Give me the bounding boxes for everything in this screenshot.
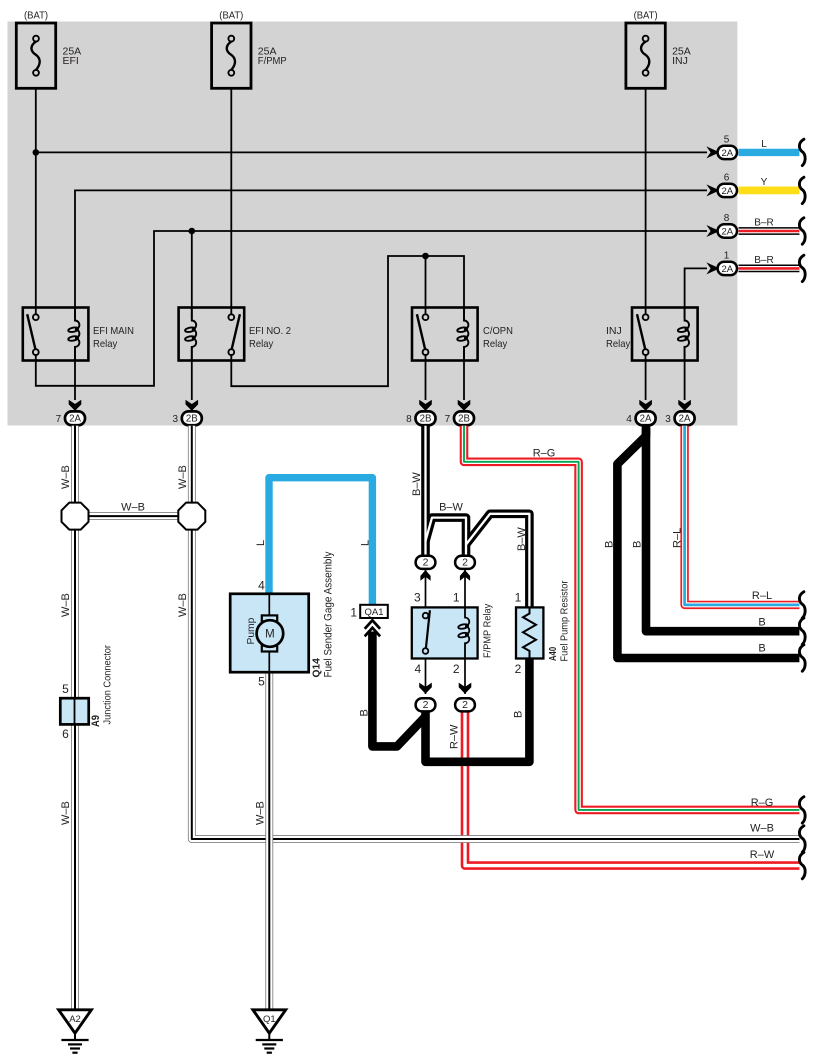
svg-text:W–B: W–B [60,593,72,617]
wire W-B: junction node down to junction connector A9 [71,530,79,699]
svg-text:B–W: B–W [439,501,463,513]
wire B: F/PMP relay pin 4 connector to fuel pump resistor pin 2 [426,658,530,762]
relay F/PMP [412,591,494,676]
wire: C/OPN switch feed [425,256,427,314]
svg-text:B–R: B–R [754,218,774,229]
wire W-B: between junction nodes [88,512,178,520]
svg-text:R–W: R–W [750,849,775,861]
wire: EFI MAIN coil feed / row to connector 6 2A [75,190,707,318]
svg-text:2A: 2A [69,414,81,425]
fuse EFI 25A [16,10,81,89]
relay box background panel [8,22,738,426]
relay EFI NO. 2 [179,308,292,361]
svg-text:L: L [359,540,371,546]
relay EFI MAIN [23,308,134,361]
svg-text:INJ: INJ [672,55,688,67]
wire: EFI fuse to EFI MAIN relay switch [35,88,37,314]
svg-text:F/PMP: F/PMP [258,55,287,67]
svg-text:QA1: QA1 [365,607,384,618]
svg-text:1: 1 [724,251,730,262]
junction connector A9 [60,645,113,741]
svg-text:3: 3 [414,591,421,605]
svg-text:B: B [631,541,643,548]
svg-text:EFI MAIN: EFI MAIN [93,325,134,337]
svg-text:Relay: Relay [606,338,631,350]
svg-text:Relay: Relay [93,338,118,350]
ground A2 [59,1010,92,1053]
svg-text:1: 1 [515,591,522,605]
wire: row to connector 8 2A from EFI MAIN switch output [36,231,707,386]
svg-text:2A: 2A [640,414,652,425]
svg-text:INJ: INJ [606,325,622,337]
svg-text:Pump: Pump [246,617,257,644]
wire break at right edge y=604.9 [799,592,805,618]
wire B: connector 4 2A branch down-left and right to edge break [617,428,799,658]
connector 2 below pin 2 [455,683,475,712]
svg-text:1: 1 [453,591,460,605]
svg-text:2B: 2B [458,414,470,425]
wire: INJ coil to connector 3 2A [684,346,686,400]
node junction at EFI fuse wire [33,149,40,156]
fuse F/PMP 25A [212,10,287,89]
wire: INJ switch to connector 4 2A [645,355,647,400]
svg-text:EFI NO. 2: EFI NO. 2 [249,325,291,337]
svg-text:5: 5 [724,135,730,146]
svg-text:B–R: B–R [754,255,774,266]
wire break at right edge y=658.0 [799,645,805,671]
svg-text:2A: 2A [721,226,733,237]
wire: F/PMP fuse to EFI NO.2 switch [230,88,232,314]
wire W-B: fuel pump pin 5 to ground Q1 [265,673,273,1010]
svg-text:W–B: W–B [60,801,72,825]
wire: C/OPN switch to connector 8 2B [425,355,427,400]
connector pin 6 2A row [706,173,767,198]
svg-text:Fuel Pump Resistor: Fuel Pump Resistor [559,580,570,662]
wire W-B: junction node down and right to edge break [192,530,800,839]
svg-text:(BAT): (BAT) [24,10,48,22]
svg-text:B: B [358,709,370,716]
svg-text:B: B [758,642,765,654]
svg-text:4: 4 [626,414,632,425]
svg-text:R–L: R–L [752,590,772,602]
svg-text:8: 8 [724,213,730,224]
connector pin 3 2B [172,400,201,425]
wire R-G from connector 7 2B [464,426,799,810]
svg-text:B: B [758,616,765,628]
wire R-L from connector 3 2A [685,426,800,605]
svg-text:6: 6 [62,727,69,741]
wire R-W from F/PMP relay pin 2 [465,712,799,866]
svg-text:2B: 2B [186,414,198,425]
ground Q1 [253,1010,286,1053]
wire L (blue): fuel sender gage to QA1 [269,478,372,605]
svg-text:2: 2 [462,699,468,711]
svg-text:2A: 2A [721,186,733,197]
svg-text:4: 4 [258,579,265,593]
svg-text:R–W: R–W [448,724,460,749]
relay INJ [606,308,698,361]
svg-text:B: B [604,541,616,548]
wire: EFI NO.2 switch output to C/OPN relay feed [231,256,464,386]
wire break at right edge y=865.6 [799,852,805,878]
node junction octagon right [178,503,205,530]
connector 2 above pin 3 [416,556,436,581]
svg-text:L: L [255,540,267,546]
resistor A40 Fuel Pump Resistor [515,580,571,676]
svg-text:(BAT): (BAT) [634,10,658,22]
wire: EFI NO.2 coil to connector 3 2B [191,346,193,400]
svg-text:Relay: Relay [249,338,274,350]
svg-text:3: 3 [665,414,671,425]
connector pin 5 2A row [706,135,767,160]
wire W-B: junction connector A9 down to ground A2 [71,725,79,1010]
svg-text:2: 2 [515,662,522,676]
svg-text:2B: 2B [420,414,432,425]
svg-text:B–W: B–W [411,472,423,496]
svg-text:EFI: EFI [63,55,79,67]
wire: row to connector 1 2A / INJ coil feed [685,268,707,318]
svg-text:C/OPN: C/OPN [483,325,513,337]
wire stub B–R [739,218,806,244]
svg-text:A2: A2 [69,1014,81,1025]
svg-text:B–W: B–W [516,527,528,551]
svg-text:W–B: W–B [177,465,189,489]
svg-text:B: B [513,711,525,718]
svg-text:5: 5 [62,682,69,696]
svg-text:5: 5 [258,675,265,689]
svg-text:7: 7 [445,414,451,425]
svg-text:A9: A9 [90,715,102,727]
component Q14 Fuel Sender Gage Assembly [230,551,334,688]
svg-text:R–G: R–G [533,447,556,459]
svg-text:W–B: W–B [177,593,189,617]
fuse INJ 25A [626,10,691,89]
wire B: connector 4 2A straight down and right to edge break [646,426,799,632]
wire B-W net: connector 8 2B to F/PMP relay pins 3 and 1 and fuel pump resistor pin 1 [421,426,430,556]
svg-text:W–B: W–B [255,801,267,825]
svg-text:2A: 2A [721,148,733,159]
connector pin 3 2A [665,400,694,425]
svg-text:2A: 2A [679,414,691,425]
connector pin 8 2A row [706,213,773,238]
connector pin 7 2B [445,400,474,425]
svg-text:W–B: W–B [121,502,145,514]
node junction feeding C/OPN switch [422,253,429,260]
svg-text:3: 3 [172,414,178,425]
node junction feeding EFI NO.2 coil [189,228,196,235]
wire pin3 stub [426,569,466,694]
wire: INJ fuse to INJ relay switch [645,88,647,314]
wire: C/OPN coil to connector 7 2B [463,346,465,400]
wire stub Y [739,177,806,203]
svg-text:W–B: W–B [60,465,72,489]
svg-text:2A: 2A [721,264,733,275]
connector 2 above pin 1 [455,556,475,581]
svg-text:R–L: R–L [672,528,684,548]
wire break at right edge y=839.0 [799,826,805,852]
connector QA1 [350,605,387,637]
svg-text:Relay: Relay [483,338,508,350]
svg-text:2: 2 [453,662,460,676]
connector pin 1 2A row [706,251,773,276]
svg-text:W–B: W–B [750,822,774,834]
svg-text:2: 2 [462,557,468,569]
svg-text:Q14: Q14 [312,658,323,678]
svg-text:Q1: Q1 [263,1014,276,1025]
wire stub L [739,139,806,165]
svg-text:Fuel Sender Gage Assembly: Fuel Sender Gage Assembly [323,551,335,677]
svg-text:F/PMP Relay: F/PMP Relay [483,603,494,658]
wire W-B: connector 7 2A down to junction node [71,426,79,503]
svg-text:(BAT): (BAT) [219,10,243,22]
wire: EFI NO.2 coil feed [191,231,193,319]
svg-text:8: 8 [406,414,412,425]
wire break at right edge y=809.9 [799,797,805,823]
svg-text:Junction Connector: Junction Connector [103,645,114,725]
svg-text:M: M [265,629,275,641]
wire stub B–R [739,255,806,281]
wire: EFI MAIN coil to connector 7 2A [74,346,76,400]
svg-text:L: L [761,139,767,150]
svg-text:A40: A40 [548,647,559,661]
svg-text:6: 6 [724,173,730,184]
wire W-B: connector 3 2B down to junction node [188,426,196,503]
wire: row to connector 5 2A [36,151,707,153]
relay C/OPN [412,308,513,361]
connector pin 7 2A [56,400,85,425]
svg-text:1: 1 [350,605,357,619]
svg-text:2: 2 [423,557,429,569]
svg-text:R–G: R–G [751,797,774,809]
connector 2 below pin 4 [416,683,436,712]
wire break at right edge y=631.2 [799,618,805,644]
node junction octagon left [62,503,89,530]
svg-text:4: 4 [415,662,422,676]
connector pin 8 2B [406,400,435,425]
connector pin 4 2A [626,400,655,425]
svg-text:Y: Y [761,177,768,188]
wire B: QA1 to F/PMP relay pin 4 [372,632,425,747]
svg-text:7: 7 [56,414,62,425]
svg-text:2: 2 [423,699,429,711]
